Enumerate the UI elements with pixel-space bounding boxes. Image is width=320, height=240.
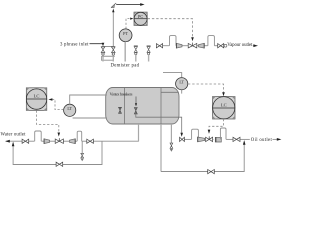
bridge oil 1 [192,129,199,139]
node vapour stub circle [224,44,227,47]
arrowhead water bypass up [12,142,15,147]
wire water bypass [13,141,102,164]
valve water bypass [56,162,63,166]
wire inlet nozzle stub 2 [112,56,114,61]
valve vapour block 1 [156,44,162,48]
arrowhead oil bypass up [243,140,246,145]
controller LC right [213,97,236,120]
arrowhead into oil CV [208,130,211,134]
drain oil open end [170,149,173,152]
arrowhead oil nozzle down [180,133,183,137]
wire water line [6,140,139,142]
baffle inside vessel [124,88,126,125]
valve vent B on vessel top [147,46,151,55]
svg-text:LC: LC [221,102,227,107]
wire LT left bottom tap [73,117,107,119]
arrowhead vapour outlet [253,44,258,47]
wire oil bypass riser (weir extension) [160,124,162,172]
wire flare header [116,4,142,6]
arrowhead flare riser up [112,9,114,13]
control valve oil CV [206,137,213,141]
wire internal oil pipe [136,114,182,134]
arrowhead into water CV [58,133,61,137]
svg-text:LC: LC [34,93,40,98]
arrowhead into vapour CV [191,37,194,41]
bridge water 1 [35,131,42,141]
svg-text:Vortex breakers: Vortex breakers [110,91,133,96]
wire LT right lower stem [181,90,183,94]
wire vapour line [163,45,256,47]
signal dash LT right to LC right [188,84,224,94]
valve oil block 2 [233,137,240,141]
wire oil drain drop [170,124,172,143]
reducer water 2 [70,139,76,144]
transmitter PT [119,29,132,42]
wire inlet top header [102,45,115,47]
svg-text:PC: PC [138,14,143,19]
wire water nozzle riser [138,124,140,141]
transmitter LT left [64,104,76,116]
valve oil drain (vertical) [170,143,173,148]
drain water open end [81,159,84,162]
reducer vapour 1 [176,43,182,48]
control valve water CV [55,139,63,143]
arrowhead vortex label [135,103,137,106]
svg-text:PT: PT [123,31,128,36]
vortex breaker 2 [134,108,137,115]
wire vent B stub [148,55,150,62]
bridge vapour 1 [170,36,177,46]
svg-text:3 phrase inlet: 3 phrase inlet [60,42,89,47]
arrowhead into LC right top [222,92,225,96]
valve inlet block 2 (vertical) [112,47,116,55]
wire inlet nozzle stub 1 [102,56,104,61]
wire vent A stub [135,55,137,62]
bridge oil 2 [220,128,226,139]
wire PT nozzle stub [124,42,126,62]
controller LC left [26,88,47,111]
controller PC [134,12,147,25]
valve vapour block 2 [218,44,224,48]
wire inlet label leader [90,43,104,45]
transmitter LT right [176,78,188,90]
valve vent A on vessel top [134,46,138,55]
valve inlet block 1 (vertical) [101,47,105,55]
arrowhead water outlet left [5,140,10,143]
svg-text:Demister pad: Demister pad [111,64,140,69]
reducer vapour 2 [199,43,205,48]
bridge water 2 [77,131,82,141]
wire oil box top plate [161,91,179,93]
svg-text:Water outlet: Water outlet [1,132,27,137]
svg-text:Oil outlet: Oil outlet [251,138,273,143]
wire inlet drip loop [101,56,113,60]
vessel three-phase separator [106,88,179,125]
wire LT right upper tap [163,73,182,78]
arrowhead flare header right [140,3,144,6]
vortex breaker 1 [119,107,122,113]
drain water stem [81,141,83,153]
wire flare riser [112,11,114,46]
wire oil bypass [161,143,244,172]
svg-text:LT: LT [179,79,184,84]
reducer oil 1 [198,137,205,142]
svg-text:Vapour outlet: Vapour outlet [227,43,253,48]
valve water block 2 [87,139,94,143]
signal dash LC left to water CV [37,110,59,133]
signal dash LT left to LC left [51,100,63,110]
weir inside vessel [160,88,162,125]
wire LT left top tap [70,95,107,104]
arrowhead into PC [130,18,133,20]
valve water block 1 [22,139,29,143]
arrowhead inlet down [102,43,105,46]
wire inlet bottom header [102,55,115,57]
bridge vapour 2 [208,36,215,46]
signal dash PC to vapour control valve [148,19,193,39]
valve oil block 1 [180,137,185,141]
svg-text:LT: LT [67,106,72,111]
arrowhead oil outlet [277,138,282,141]
valve oil bypass [208,170,215,174]
reducer oil 2 [215,137,221,142]
signal dash LC right to oil CV [209,119,224,131]
wire oil line [185,138,279,140]
arrowhead into LC left [48,98,52,101]
flag off-page connector [111,3,116,8]
control valve vapour CV [188,44,197,48]
signal dash PT to PC [126,19,129,29]
valve water drain (vertical) [81,153,84,158]
reducer water 1 [44,139,50,144]
wire label arrow to vortex breaker [135,97,137,105]
